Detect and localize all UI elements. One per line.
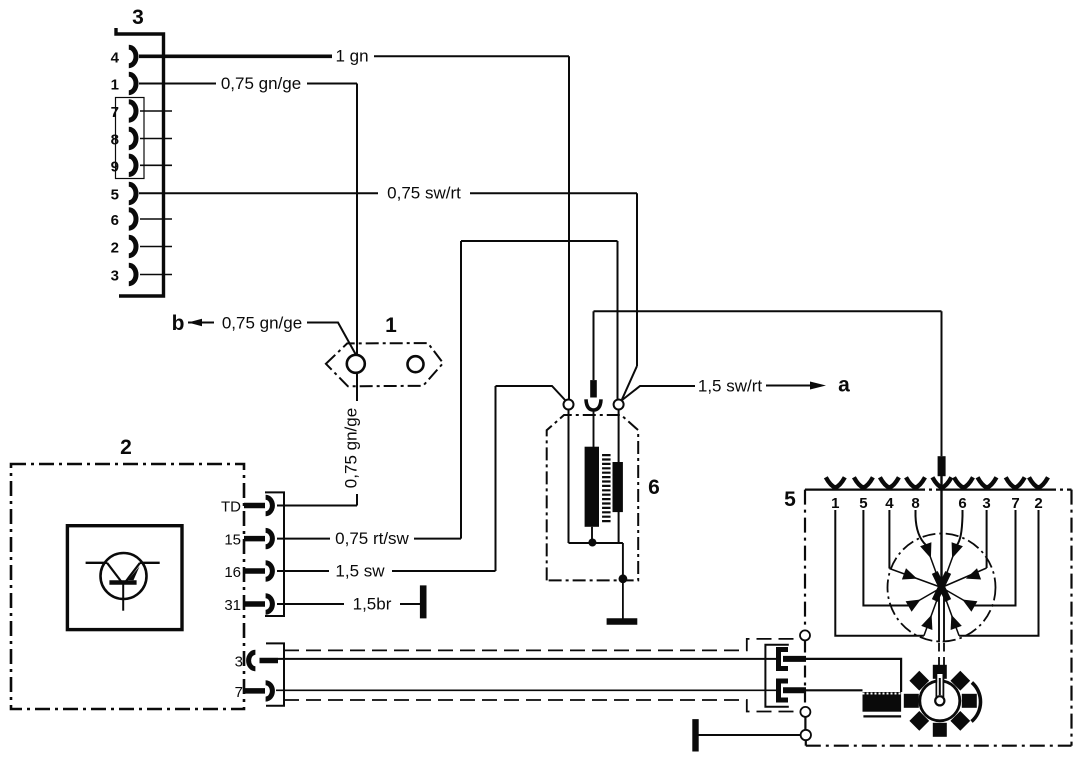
coil inner bottom conductor — [569, 542, 623, 544]
plug terminal 3 stub — [783, 656, 806, 662]
svg-text:7: 7 — [111, 104, 119, 121]
coil terminal 15 circle — [564, 400, 574, 410]
pin 31 stub — [244, 601, 265, 607]
pin 16 socket arc — [266, 563, 273, 579]
wire 0,75 sw/rt vertical down — [636, 193, 638, 366]
svg-text:1 gn: 1 gn — [335, 47, 368, 66]
coil HV inner lead — [593, 411, 595, 448]
ground wire to lower circle — [698, 734, 801, 736]
svg-text:TD: TD — [221, 499, 241, 516]
wire terminal 2 to rotor — [959, 510, 1038, 636]
svg-text:7: 7 — [235, 684, 243, 701]
distributor 5 outline right edge — [1070, 490, 1072, 746]
svg-text:6: 6 — [111, 212, 119, 229]
wire terminal 7 to rotor — [973, 510, 1016, 606]
wire 0,75 gn/ge segment to corner — [307, 83, 357, 85]
terminal numbers — [831, 495, 1043, 512]
pin 15 socket arc — [266, 530, 273, 546]
HV center vertical into rotor — [940, 476, 942, 588]
fuse 1 left terminal circle — [347, 355, 365, 373]
fuse 1 outline — [326, 343, 443, 386]
svg-text:6: 6 — [958, 495, 966, 512]
connector X3 pin 9 — [129, 156, 136, 174]
pin 31 socket arc — [266, 596, 273, 612]
svg-text:0,75 gn/ge: 0,75 gn/ge — [341, 408, 360, 488]
svg-text:0,75 rt/sw: 0,75 rt/sw — [335, 529, 409, 548]
svg-text:3: 3 — [982, 495, 990, 512]
rotor arrowheads — [902, 542, 981, 630]
plug terminal 7 bracket — [779, 681, 789, 700]
wire terminal 1 to rotor — [835, 510, 924, 636]
connector X3 pin 3 stub — [140, 274, 172, 276]
distributor 5 outline left edge — [804, 490, 806, 630]
wire 3 shield dashed — [284, 639, 798, 651]
wire 0,75 rt/sw to corner — [414, 538, 461, 540]
plug terminal 3 bracket — [779, 650, 789, 669]
connector X3 pin 6 — [129, 210, 136, 228]
svg-text:2: 2 — [111, 240, 119, 257]
svg-text:7: 7 — [1011, 495, 1019, 512]
coil HV terminal 4 bar — [590, 380, 597, 397]
connector X3 pin 3 — [129, 265, 136, 283]
trigger wheel slot pin — [939, 678, 941, 695]
svg-text:1: 1 — [111, 77, 119, 94]
coil HV spark gap cup — [586, 399, 601, 410]
svg-text:9: 9 — [111, 158, 119, 175]
wire TD horizontal — [277, 505, 357, 507]
connector X3 pin 8 — [129, 129, 136, 147]
transistor symbol circle — [101, 553, 147, 599]
svg-text:8: 8 — [911, 495, 919, 512]
svg-text:0,75 gn/ge: 0,75 gn/ge — [222, 314, 302, 333]
svg-text:6: 6 — [648, 476, 660, 499]
ignition coil 6 outline — [547, 415, 639, 580]
wire 0,75 rt/sw top horizontal — [461, 240, 618, 242]
svg-text:2: 2 — [120, 436, 132, 459]
distributor 5 outline top edge — [805, 489, 1072, 491]
svg-text:15: 15 — [224, 532, 241, 549]
wire 1 gn vertical down to coil terminal 15 — [568, 56, 570, 400]
wire terminal 4 to rotor — [888, 510, 890, 569]
coil case vertical to bottom — [622, 543, 624, 580]
plug terminal 7 stub — [783, 687, 806, 693]
svg-text:1: 1 — [385, 314, 397, 337]
coil inner junction dot — [588, 539, 596, 547]
connector X3 pin 7 — [129, 102, 136, 120]
wire 1,5 sw from pin 16 — [277, 570, 329, 572]
wire 1,5 sw to corner — [392, 570, 496, 572]
wire terminal 5 to rotor — [863, 510, 910, 606]
wire 0,75 sw/rt diagonal to coil terminal 1 — [622, 366, 638, 401]
wire b to fuse — [307, 323, 356, 355]
connection circle upper on edge — [800, 630, 810, 640]
bracket 3-7 — [266, 643, 284, 705]
svg-text:1,5 sw: 1,5 sw — [335, 562, 385, 581]
wire terminal 8 to rotor — [916, 510, 927, 545]
wire 0,75 gn/ge vertical below fuse to TD — [356, 374, 358, 402]
ground bar at distributor — [692, 719, 698, 751]
wire 1,5 sw vertical up — [495, 386, 497, 571]
transistor base bar — [109, 580, 136, 585]
trigger wheel body — [920, 681, 960, 721]
transistor emitter arrow — [128, 567, 140, 581]
pin 7 socket arc — [266, 683, 273, 699]
svg-text:2: 2 — [1034, 495, 1042, 512]
svg-text:3: 3 — [235, 654, 243, 671]
HV center electrode bar — [938, 456, 946, 476]
pin TD stub — [244, 503, 265, 509]
rotor center hub — [935, 573, 948, 601]
transistor left lead — [86, 562, 107, 564]
trigger wheel center — [935, 696, 944, 705]
pin 3 socket arc reversed — [249, 652, 256, 668]
connector X3 pin 6 stub — [140, 218, 172, 220]
svg-text:16: 16 — [224, 564, 241, 581]
cap terminal caps row — [826, 477, 1048, 487]
pin 7 stub — [244, 688, 265, 694]
wire HV horizontal to distributor — [594, 310, 942, 312]
coil bottom junction dot — [619, 574, 628, 583]
wire HV from coil up — [593, 311, 595, 380]
arrow to b — [188, 322, 214, 324]
pickup coil wire 7 — [806, 689, 863, 691]
svg-text:5: 5 — [859, 495, 867, 512]
connector X3 frame around pins 7 8 9 — [116, 98, 145, 179]
wire 1 gn thin segment to coil — [374, 55, 569, 57]
trigger wheel lobes — [904, 665, 977, 737]
wire 1,5 sw horizontal to coil — [496, 386, 566, 401]
rotor shaft double line — [938, 594, 940, 642]
wire 3 solid to plug — [278, 658, 777, 660]
fuse 1 right terminal circle — [408, 356, 424, 372]
pin TD socket arc — [266, 497, 273, 513]
rotation direction arc — [972, 683, 981, 722]
rotor shafts radial — [889, 545, 986, 636]
ground bar terminal 31 — [420, 585, 427, 618]
switching unit 2 inner box — [67, 526, 182, 630]
transistor left diagonal — [107, 563, 122, 583]
transistor right diagonal — [125, 563, 140, 583]
connector X3 pin 7 stub — [140, 110, 172, 112]
connection circle middle on edge — [800, 707, 810, 717]
connector X3 pin 4 — [129, 47, 136, 65]
connection circle lower on edge — [801, 730, 811, 740]
wire 0,75 rt/sw vertical up — [460, 241, 462, 539]
wire 1,5br to ground — [400, 603, 420, 605]
svg-text:a: a — [838, 374, 850, 397]
coil terminal 1 circle — [614, 400, 624, 410]
trigger wheel slot — [936, 675, 943, 697]
switching unit 2 outline — [11, 464, 244, 709]
svg-text:8: 8 — [111, 132, 119, 149]
svg-text:31: 31 — [224, 597, 241, 614]
wire 7 solid to plug — [276, 689, 777, 691]
wire 0,75 gn/ge from pin 1 — [139, 83, 216, 85]
svg-text:3: 3 — [132, 6, 144, 29]
coil secondary winding — [613, 462, 623, 512]
svg-text:1,5br: 1,5br — [353, 595, 392, 614]
transistor base lead down — [122, 583, 124, 611]
plug housing solid outline — [765, 645, 788, 707]
svg-text:0,75 sw/rt: 0,75 sw/rt — [387, 184, 461, 203]
connector X3 pin 2 stub — [140, 246, 172, 248]
wire terminal 3 to rotor — [986, 510, 988, 568]
pickup coil wire 3 — [806, 659, 901, 692]
pickup coil hatch top — [863, 693, 902, 695]
wire 0,75 rt/sw down to coil terminal 1 — [617, 241, 619, 400]
coil winding core hatched — [602, 454, 611, 523]
wire 1,5br from pin 31 — [277, 603, 344, 605]
pin 15 stub — [244, 536, 265, 542]
svg-text:b: b — [172, 312, 185, 335]
connector X3 pin 1 — [129, 74, 136, 92]
wire 0,75 rt/sw from pin 15 — [277, 538, 330, 540]
transistor right lead — [140, 562, 160, 564]
svg-text:1: 1 — [831, 495, 839, 512]
wire 1,5 sw/rt diagonal from coil terminal 1 — [622, 386, 696, 401]
wire 7 shield dashed — [284, 700, 799, 712]
pin 16 stub — [244, 568, 265, 574]
wire 1 gn thick segment from pin 4 — [139, 54, 332, 58]
svg-text:5: 5 — [784, 488, 796, 511]
bracket TD-31 — [265, 492, 284, 616]
wire 0,75 sw/rt segment to corner — [470, 192, 637, 194]
coil primary winding — [585, 447, 599, 527]
rotor circle — [888, 534, 996, 642]
svg-text:4: 4 — [885, 495, 894, 512]
coil inner left conductor — [568, 409, 570, 543]
coil primary bottom lead — [591, 527, 593, 541]
svg-text:5: 5 — [111, 187, 119, 204]
pickup coil base line — [863, 715, 901, 717]
wire terminal 6 to rotor — [957, 510, 963, 545]
wire to node a with arrow — [766, 385, 812, 387]
pin 3 stub — [260, 658, 279, 664]
svg-text:4: 4 — [111, 50, 120, 67]
connector X3 pin 9 stub — [140, 164, 172, 166]
wire HV down to distributor center — [941, 311, 943, 456]
coil inner right conductor — [618, 409, 620, 543]
distributor 5 outline bottom edge — [806, 745, 1072, 747]
coil ground bar — [607, 618, 638, 624]
connector X3 body — [116, 28, 164, 296]
coil ground lead — [622, 580, 624, 619]
svg-text:0,75 gn/ge: 0,75 gn/ge — [221, 74, 301, 93]
connector X3 pin 2 — [129, 237, 136, 255]
svg-text:3: 3 — [111, 268, 119, 285]
pickup coil body — [863, 692, 902, 712]
connector X3 pin 5 — [129, 184, 136, 202]
wire 0,75 gn/ge vertical down to fuse — [356, 84, 358, 356]
shaft dashed coupling — [938, 643, 940, 666]
connector X3 pin 8 stub — [140, 138, 172, 140]
wire 0,75 sw/rt from pin 5 — [139, 192, 378, 194]
svg-text:1,5 sw/rt: 1,5 sw/rt — [698, 377, 763, 396]
